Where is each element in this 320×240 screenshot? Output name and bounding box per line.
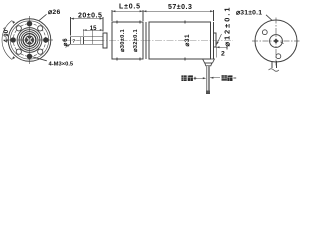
front view bearing boss circle xyxy=(23,34,36,47)
front view horizontal centerline xyxy=(6,39,53,41)
rear view outer circle xyxy=(255,20,297,62)
dim tick phi31 bottom xyxy=(184,57,186,60)
phi31 leader to rear view xyxy=(266,15,272,20)
front view case screw SW xyxy=(16,49,21,54)
front view case screw SE xyxy=(38,49,43,54)
svg-text:20±0.5: 20±0.5 xyxy=(78,12,102,19)
phi6 leader arrow xyxy=(66,44,70,47)
terminal bar mid line xyxy=(207,66,209,94)
rear view terminal stub xyxy=(272,61,277,68)
shaft flat edge line xyxy=(83,39,103,41)
shaft flat start line xyxy=(79,37,81,44)
boss face line full xyxy=(102,32,104,48)
front view M3 hole top xyxy=(27,21,32,26)
rear view vertical centerline xyxy=(275,18,277,66)
label black wire (hand-drawn CJK) xyxy=(222,75,237,81)
svg-text:⌀32±0.1: ⌀32±0.1 xyxy=(133,29,139,52)
rear bearing boss xyxy=(214,33,217,47)
output shaft outline xyxy=(71,37,104,44)
svg-text:57±0.3: 57±0.3 xyxy=(168,4,192,11)
rear view vent hole lower-right xyxy=(276,54,281,59)
svg-text:⌀31±0.1: ⌀31±0.1 xyxy=(236,9,262,16)
dim tick phi30 top xyxy=(116,20,118,23)
svg-text:⌀26: ⌀26 xyxy=(48,9,61,16)
svg-text:⌀31: ⌀31 xyxy=(184,34,191,47)
brush cap trapezoid 2 xyxy=(205,63,212,66)
middle view axis centerline xyxy=(63,39,233,41)
svg-text:15: 15 xyxy=(90,26,97,32)
svg-text:2: 2 xyxy=(221,51,225,58)
front view bolt circle (dashed) xyxy=(13,24,46,57)
dim 2 line with arrow xyxy=(216,46,227,48)
black wire leader xyxy=(210,77,220,79)
shaft flat second line xyxy=(82,37,84,44)
front view outer circle xyxy=(8,19,51,62)
red wire leader xyxy=(195,77,203,79)
phi12 leader xyxy=(217,34,222,45)
dim tick phi31 top xyxy=(184,20,186,23)
front view face ring 1 xyxy=(17,28,42,53)
front view vertical centerline xyxy=(29,16,31,64)
svg-text:⌀12±0.1: ⌀12±0.1 xyxy=(222,5,231,46)
rear view boss circle xyxy=(270,35,283,48)
svg-text:L±0.5: L±0.5 xyxy=(119,3,141,10)
dim 20 ext right xyxy=(102,17,104,31)
dim tick phi30 bottom xyxy=(116,57,118,60)
rear view break wave xyxy=(269,69,279,72)
svg-text:7: 7 xyxy=(73,38,76,44)
svg-text:4-M3×0.5: 4-M3×0.5 xyxy=(49,62,74,68)
front view face ring 3 xyxy=(21,32,38,49)
front view case screw NW xyxy=(16,26,21,31)
dim 20 line xyxy=(71,18,104,20)
svg-text:4-90°: 4-90° xyxy=(4,27,10,43)
svg-text:⌀6: ⌀6 xyxy=(62,38,69,47)
motor body xyxy=(149,22,211,59)
dim 15 ext xyxy=(82,29,84,36)
brush cap trapezoid 1 xyxy=(203,59,215,63)
dim 15 line xyxy=(83,29,103,31)
dim 2 ext lines xyxy=(213,48,215,58)
dim 57 ext left xyxy=(142,10,144,21)
front view shaft section (hatched) xyxy=(25,36,34,45)
label 7 leader dash xyxy=(77,39,80,41)
motor front cap line 1 xyxy=(145,22,147,59)
motor rear cap joint xyxy=(210,22,212,59)
front view face ring 2 xyxy=(19,30,40,51)
dim 20 ext left xyxy=(70,17,72,35)
label red wire (hand-drawn CJK) xyxy=(181,75,196,81)
motor front cap line 2 xyxy=(148,22,150,59)
motor rear face xyxy=(213,22,215,59)
phi26 leader xyxy=(39,14,46,20)
shaft step line xyxy=(92,30,94,44)
gearbox body xyxy=(112,22,143,59)
rear view shaft center xyxy=(274,39,284,44)
front bearing boss of gearbox xyxy=(103,33,107,48)
front view outer ring 2 xyxy=(10,21,48,59)
dim L line xyxy=(112,10,143,12)
svg-text:⌀30±0.1: ⌀30±0.1 xyxy=(120,29,126,52)
dim 57 line xyxy=(143,10,214,12)
front view case screw NE xyxy=(38,26,43,31)
dim tick phi32 top xyxy=(139,20,141,23)
4-90 arc arrowheads xyxy=(12,21,15,60)
front view M3 hole bottom xyxy=(27,54,32,59)
terminal bar dark tip xyxy=(206,90,210,93)
4-90 dimension arc xyxy=(2,21,12,60)
rear view vent hole upper-left xyxy=(262,30,267,35)
dim 57 ext right xyxy=(213,10,215,21)
terminal bar xyxy=(206,66,210,94)
4-M3x6 leader xyxy=(33,57,47,61)
rear view horizontal centerline xyxy=(252,40,300,42)
dim L ext left xyxy=(111,10,113,21)
dim tick phi32 bottom xyxy=(139,57,141,60)
front view M3 hole left xyxy=(11,37,16,42)
front view M3 hole right xyxy=(43,37,48,42)
